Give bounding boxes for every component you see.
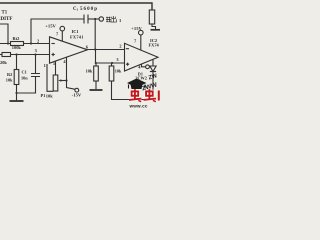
zener diode D1 2CW [152,59,154,66]
minus sign IC2 [126,48,129,50]
resistor (top right, to ground) [149,10,154,24]
svg-text:1: 1 [44,63,46,68]
wire top feedback rail [0,3,152,10]
potentiometer P1 10k [53,75,58,91]
svg-text:10k: 10k [46,94,53,99]
svg-text:Rt2: Rt2 [13,36,20,41]
wire pin4 IC1 to -15V [67,57,76,90]
wiper P1 [61,80,67,82]
node junction C1 10n [34,53,36,55]
watermark red character chong 1 [129,89,141,102]
wire divider bottom to D1 [112,81,154,100]
svg-text:+15V: +15V [45,23,56,28]
node junction R2 [15,53,17,55]
watermark black mortarboard [127,79,147,88]
capacitor C1 5600p [84,15,88,24]
svg-text:2DITF: 2DITF [0,17,12,22]
op-amp IC2 FX741 [125,43,159,71]
watermark red sliver (cut character) [158,91,160,101]
svg-text:10n: 10n [21,75,28,80]
resistor Rt2 100k [11,42,24,46]
terminal output 1 [99,17,103,21]
svg-text:2: 2 [37,38,39,43]
minus sign IC1 [52,43,55,45]
svg-text:10k: 10k [6,78,13,83]
svg-text:www.cc: www.cc [129,104,148,109]
svg-text:5600p: 5600p [80,7,98,12]
svg-text:FX741: FX741 [70,34,84,39]
resistor 10k (left of divider) [95,63,97,66]
node A junction [94,48,96,50]
resistor 10k (right of divider) [111,63,113,66]
capacitor C1 10n [35,55,37,74]
wire pin3 net IC2 [96,62,125,64]
svg-text:P1: P1 [41,93,46,98]
svg-text:10k: 10k [115,68,122,73]
svg-text:IC1: IC1 [72,29,79,34]
terminal -15V [75,88,79,92]
label output1 (Chinese) [106,16,116,22]
node junction C1 feedback [30,42,32,44]
node junction divider right [111,62,113,64]
wire capacitor to output terminal [88,18,99,20]
svg-text:R2: R2 [7,72,12,77]
wire output1 node down to IC1 output [94,19,96,50]
resistor 20k (cut at left edge) [2,53,11,57]
svg-text:C1: C1 [22,70,27,75]
resistor R2 10k [16,55,18,70]
wire pin7 +15V IC1 [61,31,63,41]
watermark red character chong 2 [144,89,156,102]
terminal +15V IC2 [139,30,144,35]
ground (middle) [90,89,103,91]
wire pin1 offset null [47,64,53,91]
svg-text:20k: 20k [0,60,7,65]
wire IC1 output to IC2 input [88,49,125,51]
wire pin7 +15V IC2 [140,35,142,50]
plus sign IC1 [52,53,55,56]
svg-text:100k: 100k [12,45,22,50]
wire pin5 offset null [55,61,57,75]
svg-text:C1: C1 [73,7,78,12]
wire non-inverting input IC1 (pin 3 net) [0,54,50,56]
svg-text:+15V: +15V [131,26,142,31]
node junction output 1 [94,18,96,20]
watermark [127,73,159,109]
ground (bottom left) [16,93,18,100]
op-amp IC1 FX741 [50,37,88,63]
svg-text:T1: T1 [2,11,8,16]
svg-text:10k: 10k [86,68,93,73]
svg-text:2: 2 [119,44,121,49]
wire pin4 IC2 to -15V [142,64,146,67]
terminal -15V IC2 [146,65,150,69]
wire feedback to capacitor C1 [31,19,84,44]
node junction ground [15,92,17,94]
wire resistor to ground [152,24,156,29]
terminal +15V IC1 [60,26,65,31]
wire node A down to divider [95,50,97,64]
wire inverting input IC1 (pin 2 net) [0,43,50,45]
svg-text:-15V: -15V [72,92,82,97]
node junction left [7,42,9,44]
ground (top right) [151,29,161,31]
wire left edge to node at Rt2 [0,24,8,44]
node junction divider left [95,62,97,64]
svg-text:FX74: FX74 [149,42,160,47]
plus sign IC2 [126,63,129,66]
